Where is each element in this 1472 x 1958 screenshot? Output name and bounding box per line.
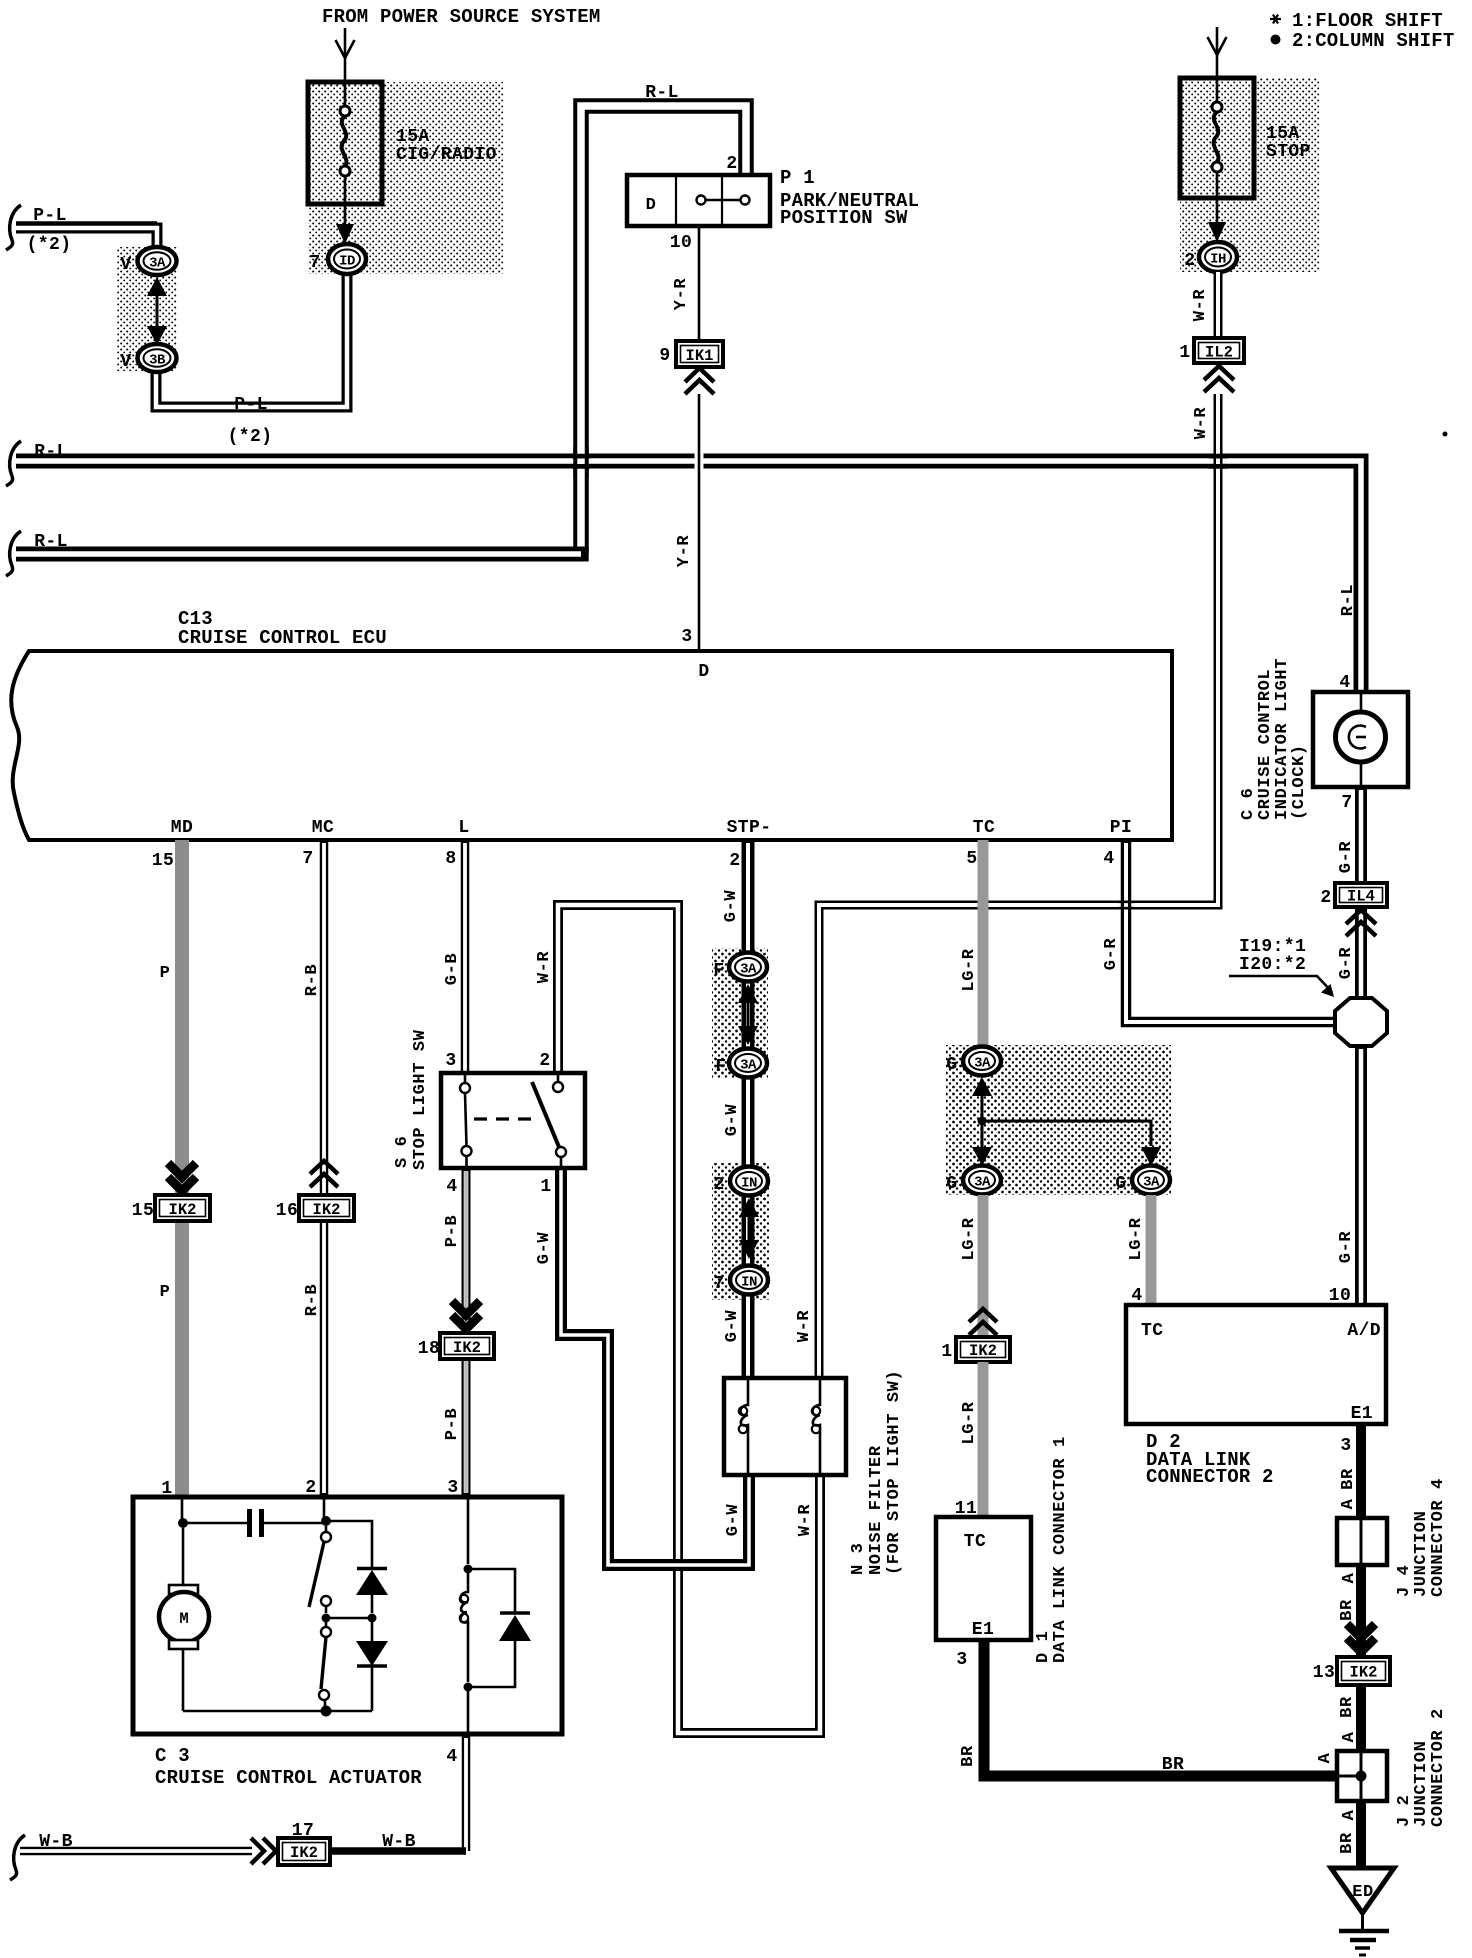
svg-text:1: 1 (540, 1177, 551, 1197)
svg-text:CONNECTOR 2: CONNECTOR 2 (1146, 1466, 1274, 1488)
svg-text:ED: ED (1352, 1883, 1374, 1902)
arrows between F3A pair (738, 984, 758, 1045)
wire R-B (MC pin 7) (320, 840, 329, 1497)
svg-text:G-W: G-W (724, 1504, 743, 1537)
wire W-B entry (20, 1847, 252, 1856)
svg-text:(*2): (*2) (228, 427, 273, 447)
svg-text:IK2: IK2 (969, 1342, 997, 1360)
svg-text:BR: BR (1162, 1755, 1184, 1775)
svg-text:I19:*1: I19:*1 (1239, 937, 1306, 957)
connector D1 DATA LINK CONNECTOR 1 (936, 1517, 1031, 1640)
svg-text:P: P (160, 964, 171, 983)
svg-text:G-R: G-R (1337, 1231, 1356, 1264)
svg-text:STOP: STOP (1266, 142, 1311, 162)
svg-text:IL4: IL4 (1347, 888, 1375, 906)
svg-text:3: 3 (445, 1051, 456, 1071)
svg-text:G: G (946, 1174, 957, 1194)
svg-text:2:COLUMN SHIFT: 2:COLUMN SHIFT (1292, 30, 1454, 52)
wire BR D2 to J4 (1356, 1424, 1366, 1518)
connector 7 IN (730, 1266, 768, 1295)
svg-text:10: 10 (670, 233, 692, 253)
svg-text:4: 4 (446, 1177, 457, 1197)
noise filter N3 box (724, 1378, 846, 1475)
svg-text:IK2: IK2 (169, 1201, 197, 1219)
svg-text:BR: BR (1338, 1599, 1357, 1621)
wire crossing lattice restore: riser over R-L(1) (572, 456, 590, 466)
arrow chevrons into 1 IK2 (969, 1309, 997, 1335)
relay coil (460, 1497, 473, 1734)
switch S6 STOP LIGHT SW (441, 1073, 585, 1168)
svg-text:E1: E1 (972, 1620, 994, 1640)
arrow chevrons below IL2 (1204, 366, 1234, 392)
arrow chevrons into 17 IK2 (251, 1838, 276, 1864)
svg-text:A: A (1339, 1498, 1358, 1509)
svg-text:IK2: IK2 (313, 1201, 341, 1219)
svg-text:4: 4 (446, 1747, 457, 1767)
stipple area V connectors (117, 247, 177, 371)
svg-text:M: M (179, 1610, 188, 1628)
actuator C3 box (133, 1497, 562, 1734)
svg-text:ID: ID (339, 254, 355, 270)
wire Y-R P1 to IK1 (698, 226, 701, 341)
svg-text:CRUISE CONTROL ECU: CRUISE CONTROL ECU (178, 627, 387, 649)
svg-text:F: F (713, 961, 724, 981)
svg-text:A: A (1340, 1731, 1359, 1742)
svg-text:13: 13 (1313, 1663, 1335, 1683)
brace R-L entry 1 (6, 441, 21, 486)
wire G-B (L pin 8) to stop light switch (461, 840, 470, 1073)
wire W-B thick to pin4 riser (330, 1847, 466, 1855)
svg-text:3: 3 (956, 1650, 967, 1670)
svg-text:15A: 15A (396, 127, 430, 147)
svg-text:7: 7 (1341, 793, 1352, 813)
svg-text:STOP LIGHT SW: STOP LIGHT SW (411, 1029, 430, 1170)
svg-text:G-R: G-R (1102, 938, 1121, 971)
connector V 3B (138, 344, 177, 372)
connector 17 IK2 (278, 1838, 330, 1865)
arrows between IN pair (739, 1198, 759, 1259)
wire P-B (462, 1168, 471, 1497)
svg-text:W-R: W-R (1192, 407, 1211, 440)
arrow chevrons below IK1 (685, 368, 714, 394)
svg-text:D: D (646, 196, 657, 215)
svg-text:G: G (946, 1055, 957, 1075)
junction connector J4 (1337, 1518, 1387, 1565)
wire G-W (STP- pin 2) heavy down to noise filter (742, 840, 755, 1378)
svg-text:CONNECTOR 4: CONNECTOR 4 (1429, 1478, 1448, 1597)
bottom internal wire (183, 1710, 372, 1713)
svg-text:TC: TC (1141, 1321, 1163, 1341)
svg-text:P-B: P-B (443, 1215, 462, 1247)
ECU C13 box (11, 651, 1172, 840)
svg-text:W-R: W-R (535, 951, 554, 984)
svg-text:D: D (698, 662, 709, 682)
svg-text:IK1: IK1 (686, 347, 714, 365)
svg-text:7: 7 (713, 1274, 724, 1294)
arrows between 3A and 3B (147, 277, 167, 345)
svg-text:BR: BR (1339, 1468, 1358, 1490)
svg-text:G-W: G-W (723, 1104, 742, 1137)
svg-text:G-W: G-W (535, 1232, 554, 1265)
wire BR J4 to 13 IK2 (1356, 1565, 1366, 1657)
wire junction R-L(2) into riser (566, 547, 589, 562)
wire LG-R right branch to D2 pin 4 (1146, 1195, 1157, 1305)
connector 16 IK2 (299, 1195, 354, 1221)
connector G 3A (lower left) (963, 1166, 1001, 1195)
stipple area G 3A group (946, 1045, 1171, 1195)
svg-text:5: 5 (966, 849, 977, 869)
svg-text:C 3: C 3 (155, 1745, 190, 1767)
arrow solid into 18 IK2 (452, 1301, 480, 1329)
small speck (1443, 432, 1448, 437)
svg-text:N 3: N 3 (849, 1543, 868, 1575)
svg-text:R-B: R-B (303, 1284, 322, 1316)
arrow up into G3A + junction (972, 1077, 1161, 1166)
connector F 3A (lower) (729, 1049, 767, 1078)
svg-text:V: V (120, 255, 131, 275)
svg-text:7: 7 (309, 253, 320, 273)
svg-text:W-R: W-R (796, 1504, 815, 1537)
svg-text:IK2: IK2 (1350, 1664, 1378, 1682)
wire BR 13IK2 to J2 (1356, 1685, 1366, 1751)
svg-text:LG-R: LG-R (1127, 1217, 1146, 1260)
svg-text:2: 2 (1320, 888, 1331, 908)
svg-text:8: 8 (445, 849, 456, 869)
svg-text:P: P (160, 1283, 171, 1302)
wire from power source (down arrow) (1208, 27, 1227, 80)
arrow solid into 15 IK2 (168, 1163, 196, 1191)
svg-text:R-B: R-B (303, 964, 322, 996)
svg-text:LG-R: LG-R (960, 948, 979, 991)
svg-text:3A: 3A (974, 1056, 991, 1072)
connector 1 IK2 (956, 1337, 1010, 1362)
svg-text:LG-R: LG-R (960, 1401, 979, 1444)
wire R-L: from R-L(2) junction up and into P1 pin 2 (581, 106, 746, 554)
wire G-R (PI pin 4) (1126, 840, 1337, 1022)
svg-text:Y-R: Y-R (675, 535, 694, 568)
wire crossing lattice restore: G-R(PI) over W-R horizontal (1118, 902, 1135, 908)
svg-text:R-L: R-L (1339, 584, 1358, 616)
connector 2 IH (1199, 242, 1237, 272)
brace R-L entry 2 (6, 531, 21, 576)
connector 18 IK2 (440, 1333, 494, 1359)
svg-text:15A: 15A (1266, 124, 1300, 144)
capacitor C (183, 1509, 326, 1537)
svg-text:3: 3 (681, 627, 692, 647)
legend bullet 1 (star) (1270, 15, 1281, 24)
svg-text:G: G (1115, 1174, 1126, 1194)
svg-text:TC: TC (964, 1532, 986, 1552)
ground ED triangle (1331, 1868, 1394, 1913)
wire G-R IL4 to octagon (1355, 907, 1367, 998)
svg-text:G-R: G-R (1337, 947, 1356, 980)
arrow solid into 13 IK2 (1347, 1624, 1375, 1652)
connector G 3A (top) (963, 1047, 1001, 1076)
fuse F CIG/RADIO 15A (308, 82, 382, 224)
motor M (159, 1528, 209, 1711)
wire P-L: ID down, left, up to V3B (156, 274, 347, 407)
arrow chevrons below IL4 (1346, 910, 1376, 936)
wire LG-R to D1 (978, 1362, 989, 1517)
svg-text:3A: 3A (740, 1058, 757, 1074)
connector 9 IK1 (676, 341, 723, 367)
svg-text:IN: IN (741, 1176, 757, 1192)
svg-text:G-R: G-R (1337, 841, 1356, 874)
svg-text:BR: BR (1338, 1696, 1357, 1718)
junction connector J2 (1337, 1751, 1387, 1801)
svg-text:LG-R: LG-R (960, 1217, 979, 1260)
svg-text:2: 2 (1184, 251, 1195, 271)
svg-text:I20:*2: I20:*2 (1239, 955, 1306, 975)
wire crossing lattice restore: W-R over R-L(1) (1209, 456, 1228, 466)
diode D2 (down) (356, 1622, 388, 1711)
stipple area STOP fuse (1180, 78, 1320, 272)
connector G 3A (lower right) (1132, 1166, 1170, 1195)
svg-text:P 1: P 1 (780, 167, 815, 189)
svg-text:V: V (120, 352, 131, 372)
svg-text:IK2: IK2 (290, 1844, 318, 1862)
connector 7 ID (328, 244, 366, 274)
svg-text:1: 1 (941, 1342, 952, 1362)
svg-text:15: 15 (152, 851, 174, 871)
wire G-R octagon to D2 pin 10 (1355, 1046, 1367, 1305)
svg-text:2: 2 (729, 851, 740, 871)
svg-text:MD: MD (171, 818, 193, 838)
ground symbol (1339, 1913, 1389, 1955)
svg-text:Y-R: Y-R (672, 278, 691, 311)
svg-text:A/D: A/D (1347, 1321, 1381, 1341)
connector D2 DATA LINK CONNECTOR 2 (1126, 1305, 1386, 1424)
wire Y-R IK1 to ECU pin 3 (with halo over R-L) (695, 394, 704, 651)
svg-text:CIG/RADIO: CIG/RADIO (396, 145, 497, 165)
stipple area CIG/RADIO (308, 82, 504, 274)
svg-text:2: 2 (539, 1051, 550, 1071)
svg-text:A: A (1340, 1572, 1359, 1583)
svg-text:G-B: G-B (443, 953, 462, 985)
light C6 CRUISE CONTROL INDICATOR LIGHT (CLOCK) (1313, 692, 1408, 787)
connector 1 IL2 (1194, 338, 1244, 363)
wire R-L riser crossing patch (573, 446, 589, 478)
svg-text:(*2): (*2) (27, 235, 72, 255)
svg-text:1:FLOOR SHIFT: 1:FLOOR SHIFT (1292, 10, 1443, 32)
diode D1 (up) (326, 1521, 388, 1623)
diode D3 (clamp) (468, 1569, 531, 1687)
svg-text:A: A (1316, 1752, 1335, 1763)
svg-text:2: 2 (713, 1175, 724, 1195)
svg-text:CONNECTOR 2: CONNECTOR 2 (1429, 1708, 1448, 1827)
connector F 3A (upper) (729, 953, 767, 982)
svg-text:PI: PI (1110, 818, 1132, 838)
wire R-L second entry to riser (16, 547, 585, 562)
svg-text:IN: IN (741, 1275, 757, 1291)
connector 2 IN (730, 1167, 768, 1196)
svg-text:2: 2 (726, 154, 737, 174)
node junction octagon I19/I20 (1335, 998, 1387, 1046)
svg-text:DATA LINK CONNECTOR 1: DATA LINK CONNECTOR 1 (1051, 1436, 1070, 1663)
svg-text:IL2: IL2 (1205, 344, 1233, 362)
svg-text:16: 16 (276, 1201, 298, 1221)
svg-text:3B: 3B (149, 353, 166, 369)
svg-text:BR: BR (1338, 1832, 1357, 1854)
svg-text:3A: 3A (149, 256, 166, 272)
switch arm upper (309, 1526, 331, 1623)
arrow into connector ID (336, 224, 354, 244)
stipple area F 3A pair (712, 948, 768, 1078)
wire from power source (down arrow) (336, 28, 355, 84)
svg-text:3A: 3A (974, 1175, 991, 1191)
svg-text:W-R: W-R (1191, 289, 1210, 322)
svg-text:18: 18 (418, 1339, 440, 1359)
wire LG-R below left G3A (978, 1195, 989, 1337)
stipple area IN pair (712, 1163, 769, 1300)
brace W-B entry (10, 1835, 25, 1880)
connector 2 IL4 (1335, 883, 1387, 907)
svg-text:IK2: IK2 (453, 1339, 481, 1357)
svg-text:1: 1 (1179, 343, 1190, 363)
svg-text:P-B: P-B (443, 1408, 462, 1440)
connector V 3A (138, 247, 177, 275)
legend bullet 2 (dot) (1271, 35, 1281, 45)
connector 13 IK2 (1337, 1657, 1390, 1685)
svg-text:S 6: S 6 (393, 1136, 412, 1168)
wire pin4 down to W-B (462, 1734, 471, 1851)
wire BR J2 to ED ground (1356, 1801, 1366, 1868)
svg-text:A: A (1340, 1809, 1359, 1820)
svg-text:3A: 3A (740, 962, 757, 978)
svg-text:NOISE FILTER: NOISE FILTER (867, 1445, 886, 1575)
wire W-R loop (558, 905, 820, 1733)
svg-text:POSITION SW: POSITION SW (780, 207, 908, 229)
svg-text:P-L: P-L (234, 395, 268, 415)
svg-text:4: 4 (1103, 849, 1114, 869)
svg-text:CRUISE CONTROL ACTUATOR: CRUISE CONTROL ACTUATOR (155, 1767, 422, 1789)
arrow chevrons into 16 IK2 (310, 1161, 338, 1187)
wire R-L main: left entry across to C6 pin 4 (16, 461, 1361, 692)
svg-text:7: 7 (302, 849, 313, 869)
svg-text:IH: IH (1210, 252, 1226, 268)
arrow into connector IH (1208, 222, 1226, 242)
svg-text:STP-: STP- (727, 818, 772, 838)
wire P-L entry to V3A (16, 228, 157, 248)
svg-text:FROM POWER SOURCE SYSTEM: FROM POWER SOURCE SYSTEM (322, 6, 600, 28)
svg-text:(FOR STOP LIGHT SW): (FOR STOP LIGHT SW) (885, 1370, 904, 1575)
svg-text:R-L: R-L (645, 83, 679, 103)
svg-text:W-R: W-R (795, 1310, 814, 1343)
svg-text:G-W: G-W (722, 890, 741, 923)
wire BR from D1 to J2 (984, 1640, 1337, 1776)
svg-text:3A: 3A (1143, 1175, 1160, 1191)
svg-text:W-B: W-B (382, 1832, 416, 1852)
switch P1 PARK/NEUTRAL POSITION SW (627, 175, 770, 226)
brace P-L entry (6, 205, 21, 250)
connector 15 IK2 (155, 1195, 210, 1221)
svg-text:15: 15 (132, 1201, 154, 1221)
wire pin2 to switch node (323, 1497, 326, 1521)
svg-text:(CLOCK): (CLOCK) (1290, 744, 1309, 820)
wire LG-R (TC pin 5) gray (978, 840, 989, 1050)
svg-text:9: 9 (659, 346, 670, 366)
wire W-R IH to IL2 (1214, 272, 1223, 338)
svg-text:F: F (715, 1057, 726, 1077)
wire G-W heavy (561, 1168, 749, 1565)
wire G-R C6 to IL4 (1355, 787, 1367, 883)
svg-text:L: L (458, 818, 469, 838)
switch arm lower (319, 1622, 332, 1717)
wire W-R (from IL2) down-left-down to noise filter (819, 394, 1218, 1378)
svg-text:G-W: G-W (723, 1310, 742, 1343)
note I19/I20 with leader arrow (1229, 937, 1334, 997)
wire P (MD pin 15) gray (175, 840, 189, 1497)
node pin1 (181, 1497, 184, 1523)
fuse F STOP 15A (1180, 78, 1254, 222)
svg-text:E1: E1 (1351, 1404, 1373, 1424)
svg-text:TC: TC (973, 818, 995, 838)
svg-text:BR: BR (959, 1745, 978, 1767)
svg-text:3: 3 (1340, 1436, 1351, 1456)
svg-text:MC: MC (312, 818, 334, 838)
